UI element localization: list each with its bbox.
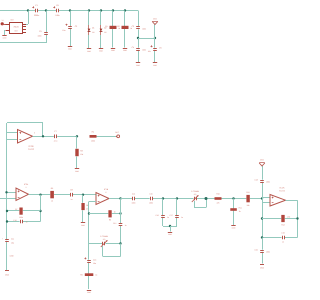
svg-text:VCC: VCC [153, 18, 158, 21]
svg-text:1k: 1k [51, 200, 53, 203]
svg-text:78L05: 78L05 [13, 25, 18, 28]
svg-text:C-TRIMM: C-TRIMM [191, 190, 199, 193]
svg-text:100n: 100n [142, 48, 146, 51]
svg-text:C18: C18 [255, 178, 258, 181]
svg-text:100n: 100n [266, 250, 270, 253]
svg-text:10k: 10k [80, 153, 83, 156]
svg-text:1k: 1k [95, 273, 97, 276]
svg-text:1u: 1u [71, 198, 73, 201]
svg-text:C8: C8 [70, 189, 72, 192]
svg-text:1k: 1k [239, 210, 241, 213]
svg-text:C3: C3 [132, 25, 134, 28]
svg-text:C16: C16 [156, 214, 159, 217]
svg-text:100n: 100n [142, 27, 146, 30]
svg-text:47k: 47k [217, 202, 220, 205]
svg-text:10k: 10k [247, 204, 250, 207]
svg-text:100u: 100u [55, 14, 59, 17]
svg-text:10u: 10u [93, 262, 96, 265]
svg-text:1n: 1n [26, 221, 28, 224]
svg-text:C14: C14 [132, 192, 135, 195]
svg-text:R11: R11 [239, 206, 242, 209]
svg-text:C11: C11 [11, 238, 14, 241]
svg-text:TL072: TL072 [28, 148, 35, 151]
svg-text:R9: R9 [80, 273, 82, 276]
svg-text:GND: GND [10, 255, 15, 258]
svg-text:C15: C15 [149, 192, 152, 195]
svg-text:R13: R13 [281, 223, 284, 226]
svg-text:1n: 1n [125, 224, 127, 227]
svg-text:1n: 1n [181, 216, 183, 219]
svg-text:100k: 100k [91, 140, 95, 143]
svg-text:VCC: VCC [260, 158, 265, 161]
svg-text:1k: 1k [114, 211, 116, 214]
svg-text:100n: 100n [149, 202, 153, 205]
svg-text:R4: R4 [92, 131, 94, 134]
svg-text:R3: R3 [80, 149, 82, 152]
svg-text:10u: 10u [148, 50, 151, 53]
svg-text:C12: C12 [113, 222, 116, 225]
svg-text:1,5k: 1,5k [287, 215, 290, 218]
svg-text:R1: R1 [105, 25, 107, 28]
svg-text:6: 6 [106, 191, 107, 194]
svg-text:C10: C10 [13, 219, 16, 222]
svg-text:3,0: 3,0 [103, 238, 106, 241]
svg-text:100n: 100n [266, 180, 270, 183]
svg-text:IC3: IC3 [15, 29, 18, 32]
svg-text:C-TRIMM: C-TRIMM [100, 235, 108, 238]
svg-text:GND: GND [5, 274, 10, 277]
svg-text:TL072: TL072 [279, 189, 286, 192]
svg-text:R10: R10 [216, 193, 219, 196]
svg-text:C5: C5 [159, 46, 161, 49]
svg-text:2: 2 [26, 186, 27, 189]
svg-text:C7: C7 [54, 130, 56, 133]
svg-text:R2: R2 [117, 25, 119, 28]
svg-text:100k: 100k [19, 216, 23, 219]
svg-text:GND: GND [260, 267, 265, 270]
svg-text:R8: R8 [109, 219, 111, 222]
svg-text:C9: C9 [39, 30, 41, 33]
svg-text:IC3: IC3 [11, 19, 14, 22]
svg-text:D1: D1 [92, 27, 94, 30]
svg-text:3,0: 3,0 [194, 193, 197, 196]
svg-text:10u: 10u [62, 29, 65, 32]
svg-text:1n: 1n [282, 241, 284, 244]
svg-text:C20: C20 [255, 248, 258, 251]
svg-text:IC1B: IC1B [104, 188, 109, 191]
svg-text:100n: 100n [38, 34, 42, 37]
svg-text:R5: R5 [51, 187, 53, 190]
svg-text:100n: 100n [132, 202, 136, 205]
svg-text:C17: C17 [170, 214, 173, 217]
svg-text:R7: R7 [15, 208, 17, 211]
svg-text:IC1A: IC1A [280, 187, 285, 190]
svg-text:C4: C4 [132, 46, 134, 49]
svg-text:C19: C19 [281, 232, 284, 235]
svg-text:IC2B: IC2B [29, 145, 34, 148]
svg-text:5: 5 [34, 131, 35, 134]
svg-text:IC2A: IC2A [24, 183, 29, 186]
svg-text:10u: 10u [11, 242, 14, 245]
svg-text:C2: C2 [75, 25, 77, 28]
svg-text:C13: C13 [93, 258, 96, 261]
svg-text:4,7u: 4,7u [54, 140, 58, 143]
svg-text:R12: R12 [246, 191, 249, 194]
svg-text:2200u: 2200u [34, 14, 39, 17]
